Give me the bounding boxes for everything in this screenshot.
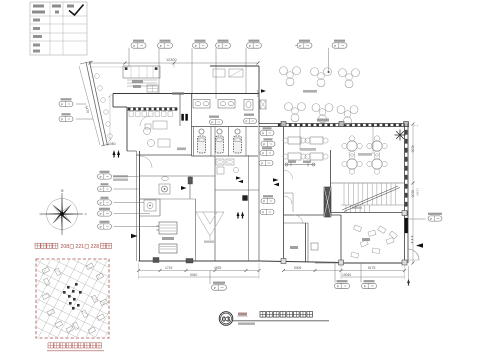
corridor arrow (181, 186, 187, 190)
inner fixture callout bubbles (209, 114, 275, 147)
left callout bubbles lower (98, 171, 160, 229)
svg-text:6100: 6100 (411, 190, 415, 198)
double arrows corridor (236, 176, 279, 218)
svg-text:10040: 10040 (342, 273, 351, 277)
outdoor chair clusters (280, 67, 360, 125)
svg-text:P: P (261, 161, 263, 165)
svg-text:P: P (61, 117, 63, 121)
left callout bubbles upper (59, 98, 93, 121)
small vertical dim right (408, 266, 410, 281)
svg-text:P: P (262, 151, 264, 155)
svg-text:1050: 1050 (108, 142, 116, 146)
entry mat (147, 85, 158, 92)
svg-text:P: P (195, 44, 197, 48)
revision table (30, 2, 87, 55)
svg-text:1715: 1715 (165, 266, 173, 270)
red project heading (35, 243, 112, 250)
paired marks near top corridor (182, 114, 188, 121)
trees along ramp (95, 74, 100, 79)
svg-text:P: P (133, 44, 135, 48)
overall top dimension 12300 (89, 58, 260, 68)
svg-text:208: 208 (61, 244, 70, 250)
svg-text:5005: 5005 (294, 266, 302, 270)
sheet title 03 (219, 312, 329, 326)
ceiling symbol (395, 130, 406, 141)
light well funnel (196, 212, 224, 243)
front room (284, 170, 319, 262)
svg-text:P: P (61, 102, 63, 106)
interior elevation marker (285, 161, 315, 167)
svg-text:P: P (100, 225, 102, 229)
hall west wall (283, 127, 285, 262)
right callout bubble (408, 213, 442, 221)
hall east wall hatched (405, 124, 409, 264)
north compass (40, 190, 87, 236)
bottom wall columns (153, 258, 193, 264)
hall top wall hatched (259, 119, 409, 127)
right vertical dimension (411, 123, 420, 265)
site boundary ramp (79, 61, 112, 146)
svg-text:P: P (364, 284, 366, 288)
laundry room (144, 184, 170, 211)
svg-text:P: P (100, 201, 102, 205)
key plan map (0, 229, 157, 360)
svg-text:P: P (100, 187, 102, 191)
duct shaft with X (260, 100, 266, 109)
svg-text:12300: 12300 (166, 58, 177, 62)
svg-text:6175: 6175 (368, 266, 376, 270)
svg-text:228: 228 (91, 244, 100, 250)
toilet anteroom fixtures (216, 159, 239, 174)
lounge furniture (129, 92, 186, 150)
round tables right (342, 136, 387, 174)
svg-text:P: P (245, 119, 247, 123)
stair treads (341, 184, 404, 213)
lounge partition hatched (127, 108, 177, 111)
left mid small note (113, 175, 128, 181)
svg-text:P: P (262, 210, 264, 214)
svg-text:13360: 13360 (416, 188, 420, 196)
svg-text:P: P (263, 142, 265, 146)
elevator shaft dark (324, 187, 331, 217)
stacked callout bubbles corridor (259, 147, 275, 214)
svg-text:P: P (334, 44, 336, 48)
svg-text:P: P (214, 286, 216, 290)
mid corridor walls (210, 66, 260, 124)
svg-text:5040: 5040 (190, 273, 198, 277)
arrow right small (261, 89, 266, 93)
svg-text:P: P (100, 175, 102, 179)
svg-text:2400: 2400 (256, 90, 260, 97)
svg-text:03: 03 (222, 314, 230, 323)
key plan caption (47, 343, 104, 351)
stair walls (284, 150, 405, 215)
svg-text:P: P (218, 44, 220, 48)
svg-text:P: P (299, 44, 301, 48)
svg-text:P: P (211, 120, 213, 124)
svg-text:P: P (430, 217, 432, 221)
bottom callout bubbles (210, 263, 377, 290)
interior partitions left wing (140, 94, 260, 262)
dimension 1050 with arrows (108, 95, 120, 158)
svg-text:221: 221 (76, 244, 85, 250)
bottom dimension chains (137, 263, 410, 286)
entrance canopy (123, 66, 160, 92)
arrow into plan left (131, 234, 138, 239)
svg-text:+ +: + + (414, 124, 419, 128)
svg-text:4100: 4100 (411, 145, 415, 153)
equipment units (156, 222, 177, 253)
approval checkmark (69, 5, 84, 16)
left wing outer walls (113, 94, 341, 263)
svg-text:P: P (263, 199, 265, 203)
wc stalls (192, 94, 259, 157)
svg-text:P: P (249, 44, 251, 48)
dimension 9478 (79, 66, 100, 145)
meeting tables left (283, 137, 328, 160)
entry hall room (281, 211, 407, 266)
wash basins (193, 100, 266, 111)
svg-text:4925: 4925 (214, 266, 222, 270)
svg-text:P: P (100, 212, 102, 216)
top callout bubbles (129, 40, 373, 154)
svg-text:P: P (160, 44, 162, 48)
svg-text:P: P (262, 131, 264, 135)
svg-text:P: P (337, 284, 339, 288)
east wall door and arrow (408, 236, 423, 260)
door swing left wall (140, 156, 152, 168)
